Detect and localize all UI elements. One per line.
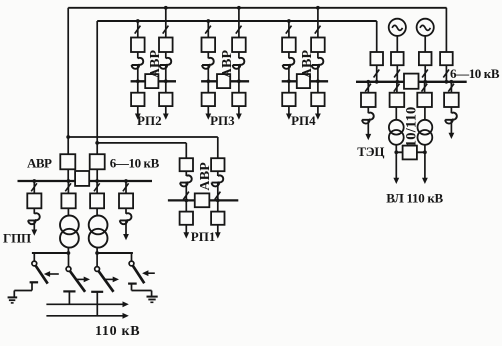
svg-text:ТЭЦ: ТЭЦ xyxy=(357,144,384,159)
svg-text:РП4: РП4 xyxy=(291,113,316,128)
svg-text:АВР: АВР xyxy=(148,49,163,78)
svg-text:АВР: АВР xyxy=(27,156,52,171)
svg-text:РП3: РП3 xyxy=(210,113,235,128)
svg-text:6—10 кВ: 6—10 кВ xyxy=(110,156,160,171)
svg-text:РП1: РП1 xyxy=(191,229,216,244)
svg-text:ВЛ 110 кВ: ВЛ 110 кВ xyxy=(386,191,443,206)
svg-text:АВР: АВР xyxy=(300,49,315,78)
svg-text:6—10 кВ: 6—10 кВ xyxy=(450,66,500,81)
svg-text:АВР: АВР xyxy=(198,162,213,191)
svg-text:10/110: 10/110 xyxy=(404,107,420,148)
svg-text:РП2: РП2 xyxy=(137,113,162,128)
svg-text:ГПП: ГПП xyxy=(3,230,31,245)
svg-text:АВР: АВР xyxy=(220,49,235,78)
svg-text:110 кВ: 110 кВ xyxy=(95,324,140,339)
